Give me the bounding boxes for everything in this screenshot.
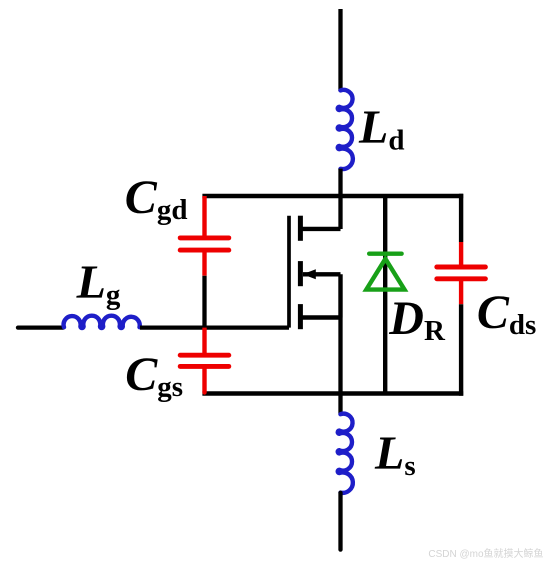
capacitor Cgs bbox=[180, 328, 229, 393]
wire gate to MOSFET bbox=[140, 325, 289, 329]
wire source to bottom rail bbox=[338, 318, 342, 415]
transistor Q1 channel drain segment bbox=[298, 216, 303, 241]
wire Cgd to gate node bbox=[202, 276, 206, 328]
wire Ld bottom to drain lead (crosses top rail) bbox=[338, 169, 342, 229]
wire drain top lead bbox=[338, 9, 342, 91]
capacitor Cds bbox=[437, 242, 486, 304]
wire diode branch vertical bbox=[383, 196, 387, 394]
transistor Q1 channel body segment bbox=[298, 261, 303, 286]
wire source bottom lead bbox=[338, 493, 342, 550]
inductor Ls bbox=[338, 414, 353, 493]
wire Cds bottom bbox=[459, 304, 463, 396]
diode DR cathode bar bbox=[369, 251, 401, 255]
wire gate left lead bbox=[18, 325, 63, 329]
transistor Q1 source lead bbox=[300, 315, 340, 319]
diode DR triangle bbox=[366, 259, 404, 290]
wire bottom rail bbox=[202, 391, 463, 396]
wire body-source vertical bbox=[338, 274, 342, 317]
transistor Q1 drain lead bbox=[300, 227, 340, 231]
svg-text:CSDN @mo鱼就摸大鲸鱼: CSDN @mo鱼就摸大鲸鱼 bbox=[428, 547, 543, 560]
transistor Q1 channel source segment bbox=[298, 304, 303, 329]
inductor Ld bbox=[338, 90, 353, 169]
transistor Q1 body arrow bbox=[303, 269, 316, 279]
wire Cds top bbox=[459, 194, 463, 242]
wire top rail bbox=[202, 194, 463, 199]
inductor Lg bbox=[64, 316, 140, 328]
capacitor Cgd bbox=[180, 196, 229, 276]
transistor Q1 body lead bbox=[303, 272, 341, 276]
transistor Q1 gate bar bbox=[287, 216, 291, 328]
